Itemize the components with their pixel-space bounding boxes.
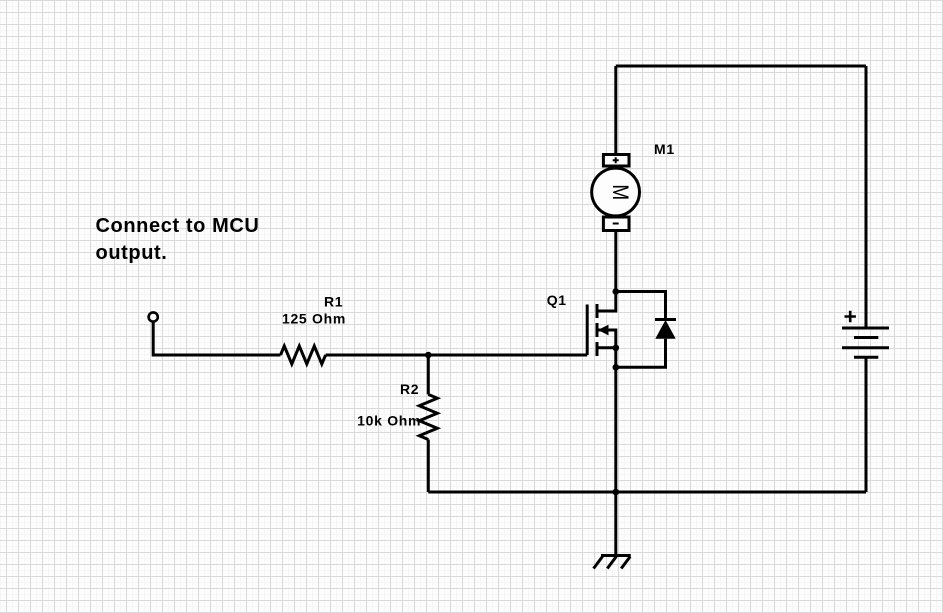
channel dash middle [596,323,599,337]
svg-text:M1: M1 [654,141,675,157]
svg-text:10k Ohm: 10k Ohm [357,412,421,428]
short plate 1 [854,336,878,339]
svg-text:125 Ohm: 125 Ohm [282,311,346,327]
ground hatch middle [607,557,616,569]
bottom terminal box [603,217,629,231]
channel dash top [596,304,599,318]
source line [597,346,616,349]
node source junction [613,345,620,352]
node drain junction [613,288,620,295]
motor M1 [592,155,640,231]
node diode return junction [613,364,620,371]
wire bottom rail [428,491,866,494]
ground hatch left [594,557,603,569]
body arrow [598,325,609,336]
wire R1 to Q1 gate [326,354,588,357]
anode triangle [655,320,675,339]
svg-text:output.: output. [96,242,168,264]
short plate 2 [854,356,878,359]
wire source to bottom rail [614,348,617,492]
plus mark [613,157,619,163]
wire top rail to battery [865,66,868,328]
resistor R2 [419,394,437,439]
wire motor to drain node [614,231,617,292]
svg-text:Connect to MCU: Connect to MCU [96,215,260,237]
svg-text:R1: R1 [324,293,343,309]
diode D1 (body diode) [655,320,676,339]
svg-text:Q1: Q1 [547,292,567,308]
wire battery to bottom rail [865,357,868,492]
node ground junction [613,489,620,496]
drain stub [597,292,616,312]
wire drain to diode branch [616,292,666,320]
minus mark [613,223,619,225]
gate bar [586,305,589,356]
wire diode to source node [616,339,666,368]
ground hatch right [621,557,630,569]
ground bar [601,554,631,557]
wire R2 to bottom rail [427,440,430,493]
channel dash bottom [596,342,599,356]
svg-text:M: M [608,184,633,200]
wire terminal to R1 [153,322,280,355]
plus sign [845,311,856,322]
battery BT1 [842,311,889,357]
long plate 1 [842,327,889,330]
long plate 2 [842,346,889,349]
wire to ground [614,492,617,556]
node junction at R2 tap [425,352,432,359]
ground [594,556,631,569]
wire junction to R2 [427,355,430,394]
input terminal [149,312,158,321]
resistor R1 [281,346,326,364]
transistor Q1 (N-MOSFET) [587,292,616,357]
svg-text:R2: R2 [400,381,419,397]
wire V+ top rail [616,65,866,68]
cathode bar [655,318,676,321]
note text: Connect to MCU output. [96,215,260,264]
motor body circle [592,168,640,216]
top terminal box [603,155,629,167]
wire top rail drop to motor [614,66,617,155]
body line [597,330,616,348]
